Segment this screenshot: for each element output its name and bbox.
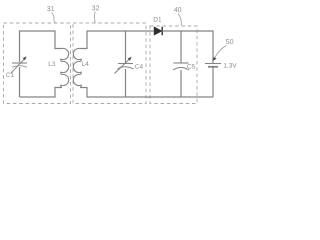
capacitor C1 (variable) (11, 56, 28, 73)
leader line 31 (52, 13, 56, 24)
label 40 (174, 7, 181, 12)
wire: battery bottom lead (212, 68, 214, 98)
dashed block 32 (73, 23, 146, 104)
wire: C5 top lead (180, 31, 182, 63)
inductor L4 (73, 48, 81, 87)
label 31 (47, 6, 54, 11)
wire: L4 to top rail (80, 31, 154, 49)
battery 50 (205, 64, 221, 67)
wire: C4 bottom lead (125, 69, 127, 97)
wire: L4 to bottom rail (80, 88, 213, 98)
dashed block 31 (4, 23, 71, 104)
label 32 (92, 5, 99, 10)
label C1 (6, 72, 14, 77)
wire: top rail diode to battery (162, 31, 213, 63)
wire: C5 bottom lead (180, 70, 182, 97)
label L3 (49, 61, 55, 66)
leader line 40 (178, 14, 181, 26)
dashed block 40 (150, 26, 197, 104)
label L4 (82, 62, 89, 66)
wire: loop top, block 31 (20, 31, 63, 97)
label C4 (135, 64, 143, 69)
inductor L3 (61, 48, 69, 87)
leader arrow 50 (212, 46, 226, 61)
wire: C4 top lead (125, 31, 127, 63)
label D1 (154, 17, 161, 21)
wire: loop bottom, block 31 (20, 88, 63, 98)
capacitor C4 (variable) (115, 57, 134, 74)
leader line 32 (94, 12, 97, 24)
diode D1 (154, 27, 162, 35)
label 1.3V (224, 63, 237, 68)
label 50 (226, 39, 233, 44)
label C5 (187, 64, 195, 69)
capacitor C5 (173, 63, 189, 70)
